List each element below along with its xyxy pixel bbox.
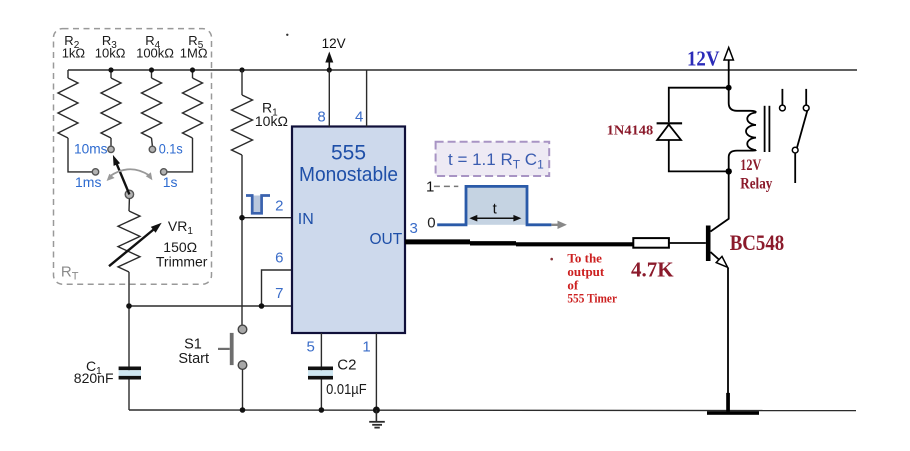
svg-text:C2: C2 xyxy=(337,357,356,374)
svg-text:3: 3 xyxy=(410,220,418,237)
svg-text:1s: 1s xyxy=(163,174,178,190)
svg-text:OUT: OUT xyxy=(369,231,402,248)
svg-text:1: 1 xyxy=(426,178,434,195)
svg-text:4.7K: 4.7K xyxy=(631,258,674,282)
svg-text:5: 5 xyxy=(307,339,315,356)
svg-text:0.1s: 0.1s xyxy=(159,141,183,157)
svg-text:100kΩ: 100kΩ xyxy=(136,46,174,61)
svg-text:12V: 12V xyxy=(322,36,346,51)
svg-text:555 Timer: 555 Timer xyxy=(567,291,617,306)
svg-text:12V: 12V xyxy=(740,157,762,174)
svg-text:Relay: Relay xyxy=(740,175,772,192)
svg-text:10ms: 10ms xyxy=(74,141,108,157)
svg-text:1N4148: 1N4148 xyxy=(607,123,654,138)
svg-text:IN: IN xyxy=(298,211,314,228)
svg-text:t = 1.1 RT C1: t = 1.1 RT C1 xyxy=(448,150,544,172)
svg-text:0.01µF: 0.01µF xyxy=(326,381,367,398)
svg-text:8: 8 xyxy=(317,108,325,125)
svg-text:0: 0 xyxy=(427,215,435,232)
svg-text:6: 6 xyxy=(275,249,283,266)
svg-text:10kΩ: 10kΩ xyxy=(255,113,288,129)
svg-text:1: 1 xyxy=(362,339,370,356)
svg-text:12V: 12V xyxy=(687,47,720,71)
svg-text:BC548: BC548 xyxy=(730,230,785,255)
svg-text:Trimmer: Trimmer xyxy=(156,253,208,269)
svg-text:1ms: 1ms xyxy=(75,174,101,190)
svg-text:Start: Start xyxy=(178,351,209,367)
svg-text:2: 2 xyxy=(275,198,283,215)
svg-text:1MΩ: 1MΩ xyxy=(180,46,208,61)
svg-text:10kΩ: 10kΩ xyxy=(95,46,126,61)
svg-text:555: 555 xyxy=(331,142,366,165)
svg-text:7: 7 xyxy=(275,285,283,302)
svg-text:1kΩ: 1kΩ xyxy=(62,46,86,61)
svg-text:820nF: 820nF xyxy=(74,370,114,386)
svg-text:Monostable: Monostable xyxy=(299,164,398,186)
svg-text:4: 4 xyxy=(355,108,363,125)
